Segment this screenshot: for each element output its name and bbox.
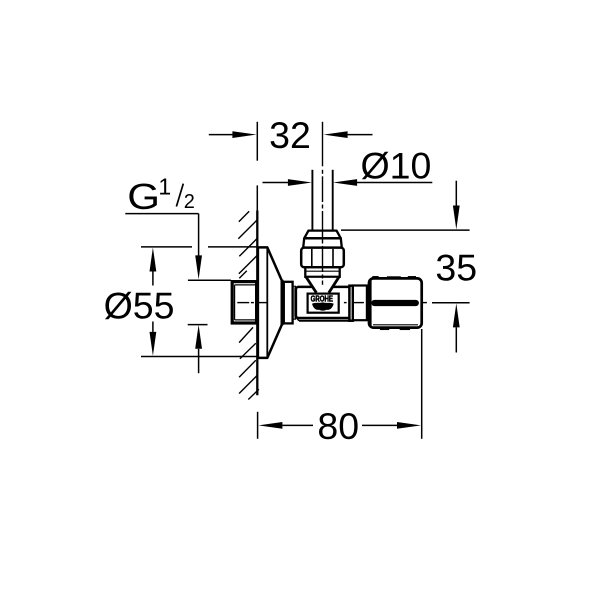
wall hatching: [238, 211, 259, 399]
dimension O10 line left: [263, 179, 312, 186]
valve neck ring: [284, 282, 293, 324]
dimension 32 line right: [324, 131, 373, 138]
dimension 35 top extension line: [341, 229, 470, 231]
dimension 32 line left: [209, 131, 257, 138]
G1/2 lower arrow: [195, 325, 202, 373]
dimension 32 extension line: [256, 122, 258, 211]
svg-text:Ø55: Ø55: [104, 285, 175, 327]
dimension O10 line right: [333, 179, 432, 186]
handle knob: [369, 277, 422, 330]
inlet thread G1/2: [232, 282, 257, 323]
compression olive: [304, 231, 341, 239]
thread top extension line: [188, 279, 231, 281]
dimension O55 bottom extension line: [141, 356, 257, 358]
dimension 35 line bottom: [453, 303, 460, 352]
svg-text:80: 80: [317, 405, 359, 447]
inlet funnel into body: [306, 277, 339, 294]
valve neck ring 2: [293, 286, 295, 319]
compression nut: [301, 248, 344, 268]
label G 1/2: [127, 174, 195, 218]
svg-text:GROHE: GROHE: [311, 295, 333, 304]
dimension O55 line: [150, 248, 157, 356]
dimension 35 line top: [453, 181, 460, 230]
valve body: [296, 287, 351, 321]
svg-text:G: G: [127, 178, 160, 218]
svg-text:1: 1: [158, 174, 171, 200]
dimension 80 left extension line: [257, 412, 259, 439]
nut lower collar: [305, 267, 339, 277]
bonnet ring: [349, 286, 353, 321]
horizontal centerline: [237, 302, 427, 304]
dimension 80 right extension line: [421, 329, 423, 439]
supply pipe Ø10: [312, 170, 332, 231]
fitting collar: [303, 238, 342, 247]
svg-text:35: 35: [435, 247, 477, 289]
svg-text:2: 2: [184, 191, 195, 213]
handle groove: [371, 300, 419, 306]
thread bottom extension line: [188, 324, 208, 326]
dimension O55 top extension line: [141, 246, 257, 248]
escutcheon rim edge: [281, 280, 284, 325]
svg-text:32: 32: [269, 114, 311, 156]
G1/2 leader line: [125, 214, 202, 280]
stem housing: [353, 286, 367, 321]
escutcheon flange: [258, 247, 282, 358]
svg-text:Ø10: Ø10: [361, 145, 432, 187]
wall surface line: [256, 211, 258, 396]
GROHE logo plate: [308, 294, 339, 313]
dimension 80 line: [258, 422, 421, 429]
vertical centerline: [322, 122, 324, 285]
dimension 35 bottom extension line: [432, 302, 470, 304]
